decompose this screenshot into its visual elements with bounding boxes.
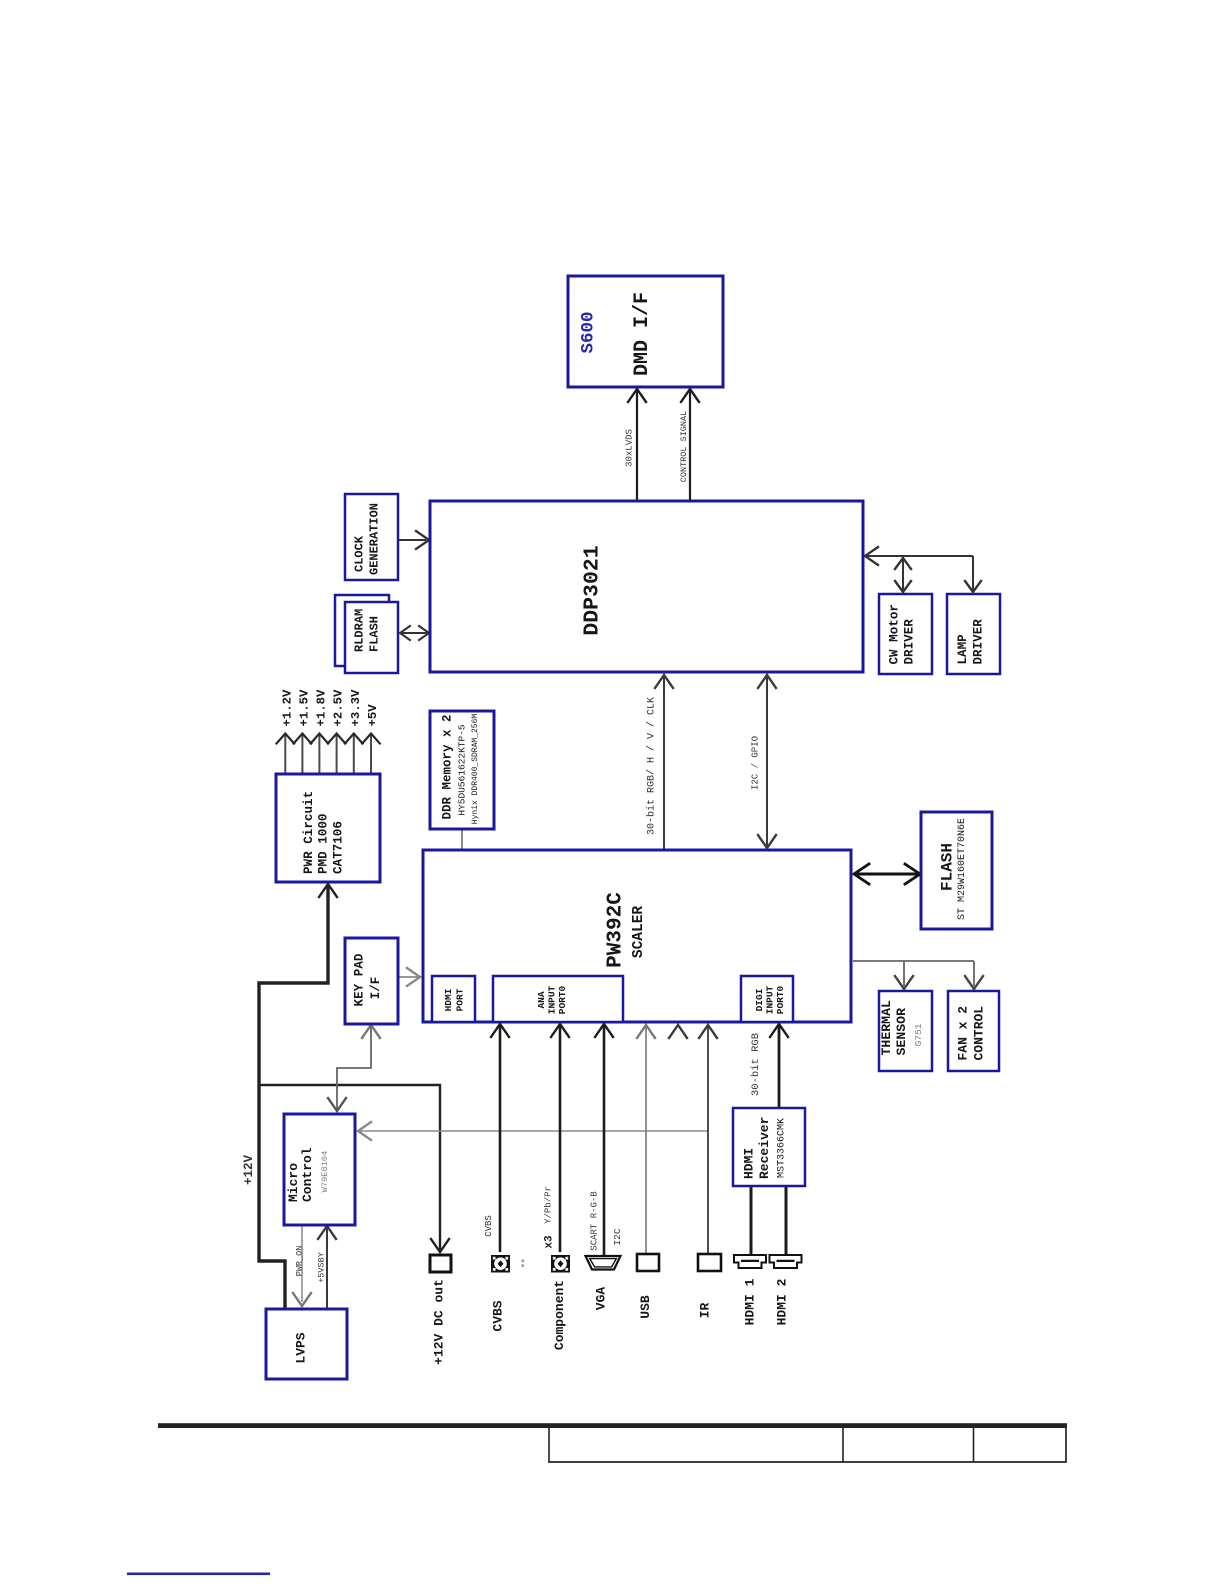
svg-text:CAT7106: CAT7106: [332, 821, 346, 874]
svg-text:HY5DU561622KTP-5: HY5DU561622KTP-5: [457, 724, 468, 816]
svg-text:LAMP: LAMP: [956, 634, 970, 665]
svg-text:CW Motor: CW Motor: [888, 604, 902, 664]
svg-text:+1.5V: +1.5V: [297, 689, 311, 727]
svg-text:Micro: Micro: [286, 1163, 301, 1202]
svg-text:+12V DC out: +12V DC out: [432, 1279, 447, 1365]
svg-text:DRIVER: DRIVER: [903, 619, 917, 665]
svg-text:ST M29W160ET70N6E: ST M29W160ET70N6E: [957, 818, 968, 920]
svg-text:HDMI 2: HDMI 2: [775, 1278, 790, 1325]
svg-text:+3.3V: +3.3V: [349, 689, 363, 727]
svg-text:SCALER: SCALER: [631, 906, 647, 959]
svg-text:USB: USB: [638, 1295, 653, 1319]
svg-text:+5V: +5V: [366, 704, 380, 727]
svg-text:PW392C: PW392C: [605, 892, 628, 968]
svg-text:I2C: I2C: [612, 1228, 623, 1245]
svg-text:x3: x3: [544, 1235, 556, 1249]
svg-text:+5VSBY: +5VSBY: [317, 1252, 327, 1283]
svg-text:DDP3021: DDP3021: [581, 545, 605, 635]
svg-text:ANA: ANA: [536, 991, 547, 1008]
svg-text:CLOCK: CLOCK: [353, 535, 367, 572]
svg-text:+2.5V: +2.5V: [332, 689, 346, 727]
svg-text:HDMI: HDMI: [443, 989, 454, 1012]
svg-text:VGA: VGA: [594, 1287, 609, 1311]
svg-text:GENERATION: GENERATION: [368, 503, 382, 575]
svg-text:30-bit RGB/ H / V / CLK: 30-bit RGB/ H / V / CLK: [646, 697, 658, 835]
svg-text:G751: G751: [913, 1023, 924, 1046]
svg-text:KEY PAD: KEY PAD: [353, 953, 367, 1006]
svg-text:HDMI: HDMI: [742, 1148, 757, 1179]
svg-text:Receiver: Receiver: [757, 1117, 772, 1179]
svg-text:30-bit RGB: 30-bit RGB: [750, 1033, 762, 1096]
svg-text:I2C / GPIO: I2C / GPIO: [751, 736, 761, 790]
svg-text:Hynix DDR400_SDRAM_256M: Hynix DDR400_SDRAM_256M: [471, 714, 480, 825]
svg-text:SENSOR: SENSOR: [894, 1008, 909, 1056]
svg-text:DDR Memory x 2: DDR Memory x 2: [441, 714, 455, 819]
svg-text:CVBS: CVBS: [491, 1300, 506, 1331]
svg-text:FAN x 2: FAN x 2: [956, 1006, 971, 1061]
svg-text:+1.2V: +1.2V: [280, 689, 294, 727]
svg-text:FLASH: FLASH: [939, 843, 957, 891]
svg-text:PMD 1000: PMD 1000: [317, 814, 331, 874]
svg-text:HDMI 1: HDMI 1: [743, 1278, 758, 1325]
svg-text:30xLVDS: 30xLVDS: [625, 429, 635, 467]
svg-text:PWR_ON: PWR_ON: [295, 1246, 305, 1277]
svg-text:DRIVER: DRIVER: [972, 619, 986, 665]
svg-text:DIGI: DIGI: [754, 989, 765, 1012]
svg-text:+12V: +12V: [242, 1155, 256, 1186]
svg-text:PORT0: PORT0: [775, 985, 786, 1014]
svg-text:I/F: I/F: [369, 977, 383, 1000]
svg-text:+1.8V: +1.8V: [314, 689, 328, 727]
svg-text:SCART R-G-B: SCART R-G-B: [590, 1191, 600, 1251]
svg-text:THERMAL: THERMAL: [879, 1000, 894, 1055]
svg-text:Y/Pb/Pr: Y/Pb/Pr: [544, 1186, 554, 1224]
svg-text:RLDRAM: RLDRAM: [353, 609, 367, 652]
svg-text:W79E8104: W79E8104: [320, 1151, 330, 1193]
svg-text:S600: S600: [579, 311, 599, 353]
svg-text:MST3366CMK: MST3366CMK: [777, 1118, 788, 1178]
svg-text:CONTROL SIGNAL: CONTROL SIGNAL: [679, 411, 689, 482]
svg-text:DMD I/F: DMD I/F: [631, 292, 654, 376]
svg-text:PWR Circuit: PWR Circuit: [302, 791, 316, 874]
svg-text:INPUT: INPUT: [765, 985, 776, 1014]
svg-text:CVBS: CVBS: [484, 1215, 494, 1237]
svg-text:IR: IR: [698, 1303, 713, 1319]
svg-text:INPUT: INPUT: [547, 985, 558, 1014]
svg-text:PORT0: PORT0: [557, 985, 568, 1014]
svg-text:Component: Component: [552, 1280, 567, 1350]
svg-text:PORT: PORT: [455, 988, 466, 1011]
svg-text:LVPS: LVPS: [294, 1332, 309, 1363]
svg-text:FLASH: FLASH: [368, 616, 382, 652]
svg-text:Control: Control: [300, 1147, 315, 1202]
svg-text:CONTROL: CONTROL: [972, 1006, 987, 1061]
